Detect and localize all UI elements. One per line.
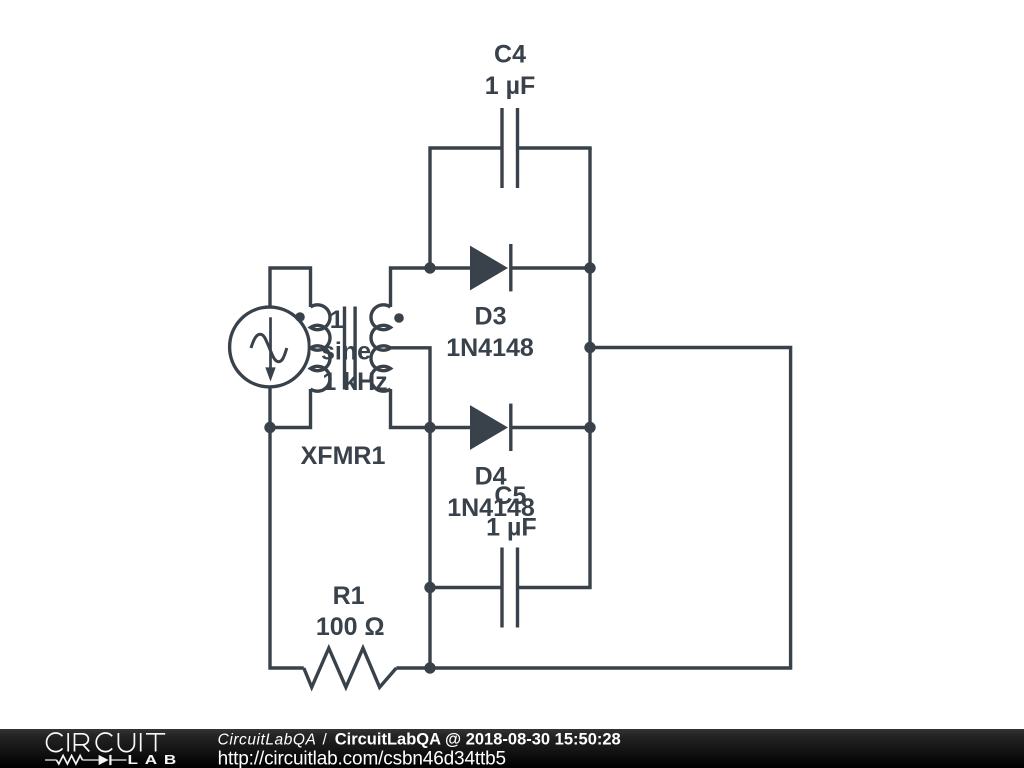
svg-text:XFMR1: XFMR1 xyxy=(301,442,386,470)
logo CIRCUIT text xyxy=(47,733,166,752)
transformer core xyxy=(345,307,356,390)
wire D4 anode lead xyxy=(430,426,470,429)
node junction D3 cathode xyxy=(584,262,595,273)
node junction bottom rail xyxy=(424,662,435,673)
svg-text:1N4148: 1N4148 xyxy=(446,334,534,362)
svg-text:http://circuitlab.com/csbn46d3: http://circuitlab.com/csbn46d34ttb5 xyxy=(218,749,506,768)
capacitor C4 xyxy=(502,108,518,188)
svg-text:100 Ω: 100 Ω xyxy=(316,613,385,641)
svg-text:sine: sine xyxy=(321,337,371,365)
resistor R1 zigzag xyxy=(304,648,397,687)
capacitor C5 xyxy=(502,548,518,628)
svg-text:D3: D3 xyxy=(475,303,507,331)
transformer XFMR1 primary winding xyxy=(311,305,331,391)
transformer XFMR1 secondary winding xyxy=(371,305,391,391)
voltage source V1 circle xyxy=(230,307,310,387)
wire D3 cathode to right xyxy=(511,266,591,269)
node junction D4 anode xyxy=(424,422,435,433)
wire C5 left xyxy=(430,586,502,589)
wire C4 top right xyxy=(518,146,592,149)
node junction D4 cathode xyxy=(584,422,595,433)
primary phase dot xyxy=(295,312,305,322)
wire mega path: source bottom vertical, bottom rail, right vertical, mid horizontal xyxy=(270,348,791,669)
wire secondary top feed to D3 xyxy=(391,268,471,307)
logo LAB text xyxy=(128,753,184,767)
node junction mid right xyxy=(584,342,595,353)
node junction D3 anode xyxy=(424,262,435,273)
svg-text:1 µF: 1 µF xyxy=(485,72,536,100)
wire primary bottom feed xyxy=(270,389,311,428)
diode D3 xyxy=(470,246,508,291)
svg-text:CircuitLabQA / CircuitLabQA @: CircuitLabQA / CircuitLabQA @ 2018-08-30… xyxy=(218,730,621,748)
wire x=430 lower vertical xyxy=(428,428,431,669)
V1 sine symbol xyxy=(251,334,287,361)
svg-text:R1: R1 xyxy=(333,582,365,610)
svg-text:LAB: LAB xyxy=(128,753,184,767)
wire secondary bottom feed xyxy=(391,389,431,428)
wire D4 cathode to right xyxy=(511,426,591,429)
wire center tap xyxy=(391,348,431,428)
logo resistor-diode glyph xyxy=(45,755,126,765)
wire right vertical x=590 down to C5 xyxy=(518,148,591,588)
diode D4 xyxy=(470,405,508,450)
node junction C5 left xyxy=(424,582,435,593)
V1 polarity arrow xyxy=(265,317,275,381)
wire source top loop xyxy=(270,268,311,308)
svg-text:1 kHz: 1 kHz xyxy=(322,368,387,396)
svg-text:1 µF: 1 µF xyxy=(486,513,537,541)
node junction source bottom xyxy=(264,422,275,433)
svg-text:C4: C4 xyxy=(494,41,526,69)
wire C4 loop left xyxy=(430,148,502,268)
footer bar xyxy=(0,729,1024,768)
secondary phase dot xyxy=(394,313,404,323)
